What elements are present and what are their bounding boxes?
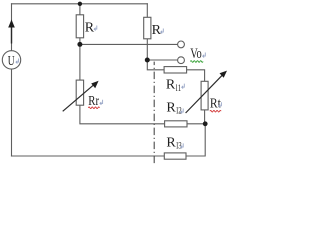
svg-text:l3: l3 xyxy=(176,141,182,151)
svg-text:R: R xyxy=(166,100,176,115)
svg-text:R: R xyxy=(166,135,176,150)
svg-text:l2: l2 xyxy=(176,106,181,116)
svg-text:R: R xyxy=(152,23,162,38)
svg-text:Rr: Rr xyxy=(88,94,99,109)
svg-text:R: R xyxy=(166,78,176,93)
svg-text:Vo: Vo xyxy=(190,46,201,62)
svg-text:Rt: Rt xyxy=(210,97,221,112)
svg-text:U: U xyxy=(8,54,15,69)
svg-text:R: R xyxy=(85,20,95,35)
svg-text:l1: l1 xyxy=(176,83,181,93)
